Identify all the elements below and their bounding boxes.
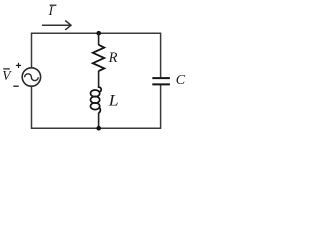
AC source U1 circle xyxy=(22,68,40,86)
wire right lower xyxy=(160,85,162,129)
label I overbar xyxy=(50,4,57,6)
node B bottom junction dot xyxy=(96,126,101,131)
resistor R xyxy=(93,45,105,71)
capacitor C top plate xyxy=(152,77,170,79)
wire middle top xyxy=(98,33,100,45)
AC source sine wave xyxy=(25,74,39,81)
label V overbar xyxy=(3,68,10,70)
svg-text:I: I xyxy=(48,3,54,18)
svg-text:C: C xyxy=(176,73,186,88)
wire right upper xyxy=(160,33,162,78)
capacitor C bottom plate xyxy=(152,83,170,85)
wire middle mid xyxy=(98,71,100,88)
svg-text:V: V xyxy=(2,68,12,83)
current arrow I xyxy=(42,21,71,30)
plus sign xyxy=(16,63,21,68)
wire middle bottom xyxy=(98,113,100,129)
wire bottom xyxy=(31,127,162,129)
inductor L xyxy=(91,87,102,113)
node A top junction dot xyxy=(96,31,101,36)
minus sign xyxy=(13,85,18,87)
svg-text:L: L xyxy=(108,93,119,110)
wire top xyxy=(31,32,162,34)
svg-text:R: R xyxy=(108,50,118,66)
wire left xyxy=(31,33,33,128)
